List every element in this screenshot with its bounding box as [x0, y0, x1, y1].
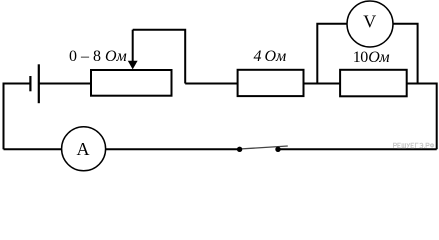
battery GB1 long plate — [38, 64, 40, 103]
svg-text:0 – 8 Ом: 0 – 8 Ом — [69, 48, 127, 65]
switch K1 right contact — [275, 147, 280, 152]
wire bottom left to ammeter — [4, 148, 62, 150]
voltmeter V1 circle — [347, 1, 393, 47]
wire R3 to right edge down — [407, 84, 437, 150]
rheostat R1 body — [91, 70, 172, 96]
wire R2 to R3 — [304, 83, 341, 85]
wire voltmeter right down — [393, 24, 418, 84]
battery GB1 short plate — [29, 76, 31, 91]
svg-text:A: A — [77, 139, 90, 159]
wire left vertical — [3, 84, 5, 150]
resistor R2 4 Ом body — [238, 70, 304, 96]
svg-text:4Ом: 4Ом — [254, 48, 287, 65]
rheostat wiper arrow — [132, 30, 134, 62]
wire voltmeter left tap — [317, 24, 347, 84]
wire tap to R2 — [185, 83, 237, 85]
wire ammeter to switch — [106, 148, 240, 150]
wire top-left to battery — [3, 83, 31, 85]
svg-text:V: V — [363, 12, 376, 32]
switch K1 lever — [240, 146, 288, 149]
watermark — [394, 143, 434, 148]
ammeter A1 circle — [62, 127, 106, 171]
resistor R3 10 Ом body — [340, 70, 407, 97]
wire wiper tap up-over-down — [133, 30, 186, 84]
svg-text:10Ом: 10Ом — [353, 49, 390, 66]
switch K1 left contact — [237, 147, 242, 152]
wire bottom right to switch — [278, 148, 437, 150]
wire battery to rheostat — [39, 83, 91, 85]
